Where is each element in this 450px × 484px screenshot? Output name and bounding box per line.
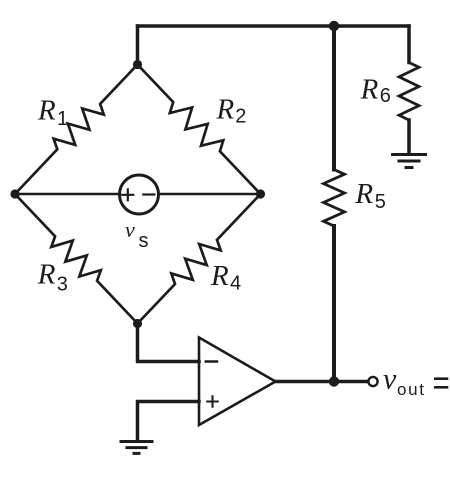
wire ground to noninverting input [138, 402, 200, 442]
svg-text:R: R [216, 94, 235, 126]
node output junction [329, 376, 339, 386]
svg-text:R: R [210, 260, 229, 292]
wire R5 bottom lead to output node [332, 226, 336, 382]
svg-text:6: 6 [380, 85, 391, 107]
svg-text:4: 4 [230, 273, 241, 295]
op-amp plus input sign [207, 396, 217, 406]
voltage source plus sign [122, 189, 133, 200]
voltage source vs circle [120, 175, 159, 214]
wire top-node to top rail [136, 26, 140, 65]
svg-text:s: s [139, 230, 149, 252]
svg-text:5: 5 [375, 191, 386, 213]
node bridge top [133, 60, 142, 69]
resistor R4 [138, 194, 261, 324]
resistor R2 [138, 65, 261, 195]
svg-text:out: out [397, 380, 426, 399]
resistor R5 [324, 170, 345, 227]
resistor R3 [15, 194, 138, 324]
svg-text:v: v [125, 217, 135, 242]
svg-text:1: 1 [57, 108, 68, 130]
ground at op-amp noninverting input [120, 442, 154, 454]
op-amp U1 triangle [199, 338, 276, 426]
ground below R6 [391, 155, 427, 168]
voltage source minus sign [143, 193, 154, 195]
wire source to right node [159, 193, 261, 196]
node top rail / R5 junction [329, 21, 339, 31]
svg-text:2: 2 [235, 106, 246, 128]
output terminal open circle [368, 377, 377, 386]
node bridge bottom [133, 319, 142, 328]
label equals sign [434, 377, 448, 388]
wire op-amp output [276, 380, 368, 384]
resistor R1 [15, 65, 138, 195]
wire R5 top lead [332, 26, 336, 170]
svg-text:R: R [37, 94, 56, 126]
resistor R6 [399, 63, 419, 121]
svg-text:R: R [354, 178, 373, 210]
svg-text:v: v [383, 363, 397, 396]
wire top rail [138, 24, 410, 28]
node bridge left [10, 189, 19, 198]
wire R6 bottom lead to ground [407, 120, 411, 153]
node bridge right [256, 189, 265, 198]
svg-text:3: 3 [57, 273, 68, 295]
svg-text:R: R [360, 73, 379, 105]
wire R6 top lead [407, 26, 411, 63]
op-amp minus input sign [206, 360, 217, 363]
wire bottom node to inverting input [138, 324, 200, 362]
wire left node to source [15, 193, 120, 196]
svg-text:R: R [37, 259, 56, 291]
